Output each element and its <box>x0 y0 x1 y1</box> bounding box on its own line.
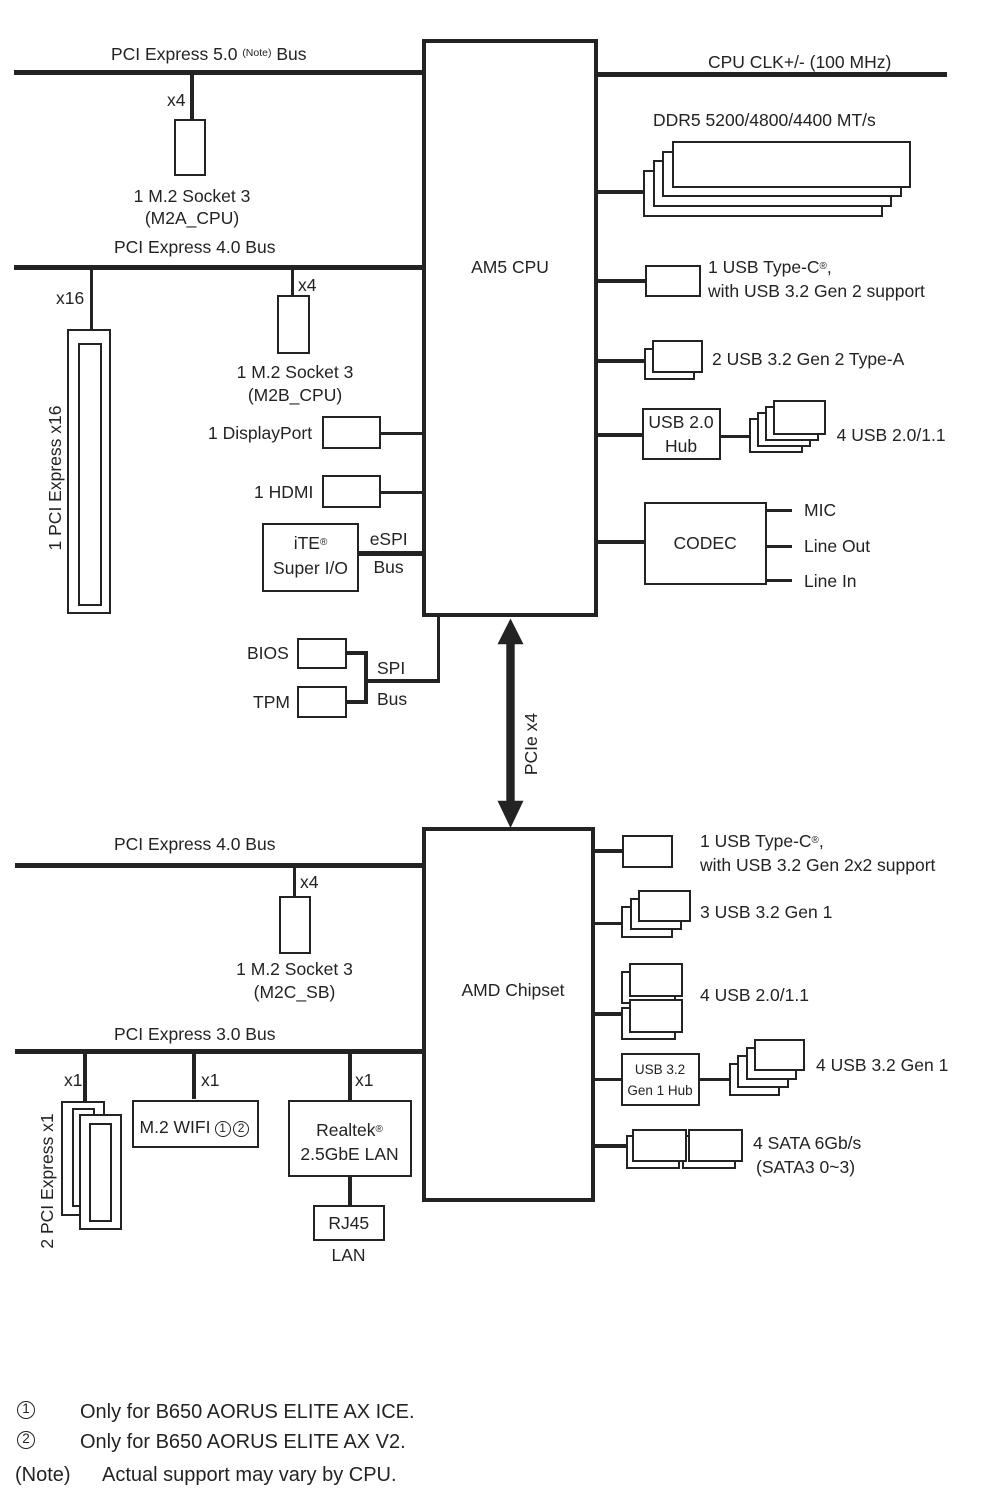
label AMD Chipset <box>513 980 616 1000</box>
label x1 <box>201 1070 219 1090</box>
note label (Note) <box>15 1464 71 1487</box>
hub USB 3.2 card 3 <box>737 1055 788 1087</box>
chipset USB 2.0 card 4 back <box>621 1007 676 1040</box>
label SPI <box>377 658 405 678</box>
wire chipset to USB Type-C 2x2 <box>595 849 622 853</box>
wire SPI bus to CPU <box>437 617 441 683</box>
bus PCI Express 5.0 <box>14 70 422 75</box>
note mark 1 <box>215 1121 231 1137</box>
TPM box <box>297 686 347 718</box>
label 1 M.2 Socket 3 <box>192 186 309 206</box>
PCIe x1 slot 2 inner <box>89 1123 112 1222</box>
chipset USB 2.0 card 1 front <box>629 963 684 996</box>
PCIe x1 slot 1 inner <box>72 1108 95 1207</box>
wire BIOS to SPI bracket <box>347 651 368 655</box>
SATA card right front <box>688 1129 743 1162</box>
wire TPM to SPI bracket <box>347 700 368 704</box>
label MIC <box>804 500 836 520</box>
wire x1 to PCIe x1 slots <box>83 1054 87 1101</box>
block USB 2.0 Hub <box>642 408 721 460</box>
wire SPI bracket vertical <box>364 651 368 703</box>
label (M2B_CPU) <box>295 385 389 405</box>
block AMD Chipset <box>422 827 595 1202</box>
wire Line In <box>767 579 792 583</box>
bus PCI Express 3.0 <box>15 1049 422 1054</box>
label (SATA3 0~3) <box>756 1157 855 1177</box>
wire x16 to PCIe slot <box>90 270 94 329</box>
block M.2 WIFI <box>132 1100 259 1148</box>
label BIOS <box>247 643 289 663</box>
USB Type-C 2x2 port box <box>622 835 673 868</box>
label with USB 3.2 Gen 2 support <box>708 281 925 301</box>
M.2 socket M2B_CPU <box>277 295 310 354</box>
wire x1 to M.2 WIFI <box>192 1054 196 1099</box>
label x4 <box>300 872 318 892</box>
label 4 SATA 6Gb/s <box>753 1133 861 1153</box>
wire CPU CLK <box>598 72 947 77</box>
wire x4 to M2B_CPU <box>291 270 295 295</box>
wire chipset to SATA <box>595 1144 626 1148</box>
SATA card left back <box>626 1135 681 1168</box>
USB Type-C port box <box>645 265 701 297</box>
wire x4 to M2C_SB <box>293 868 297 896</box>
note text 3 <box>102 1464 397 1487</box>
bus PCI Express 4.0 upper <box>14 265 422 270</box>
label PCI Express 5.0 (Note) Bus <box>111 43 307 64</box>
wire chipset to USB 2.0 ports <box>595 1012 621 1016</box>
label x1 <box>64 1070 82 1090</box>
label PCI Express 4.0 Bus <box>114 237 275 257</box>
label 1 DisplayPort <box>208 423 312 443</box>
label PCI Express 3.0 Bus <box>114 1024 275 1044</box>
label AM5 CPU <box>510 257 588 277</box>
label PCI Express 4.0 Bus <box>114 834 275 854</box>
note text 1 <box>80 1401 415 1424</box>
PCIe x1 slot 2 outer <box>79 1114 123 1230</box>
USB 2.0 card 4 <box>749 418 803 453</box>
DDR5 DIMM 4 <box>643 170 883 217</box>
BIOS box <box>297 638 347 669</box>
label Gen 1 Hub <box>660 1083 725 1098</box>
label 1 M.2 Socket 3 <box>295 959 412 979</box>
wire Hub to USB 2.0 ports <box>721 435 750 439</box>
wire HDMI to CPU <box>380 491 422 495</box>
label 4 USB 2.0/1.1 <box>700 985 809 1005</box>
DDR5 DIMM 1 <box>672 141 912 188</box>
note mark 1 <box>17 1401 35 1419</box>
label Line In <box>804 571 857 591</box>
PCIe x1 slot 1 outer <box>61 1101 105 1217</box>
label CPU CLK+/- (100 MHz) <box>708 52 891 72</box>
label TPM <box>253 692 290 712</box>
label (M2C_SB) <box>295 982 377 1002</box>
USB 2.0 card 1 <box>773 400 827 435</box>
wire CPU to USB 2.0 Hub <box>598 433 642 437</box>
label 1 PCI Express x16 <box>45 406 65 551</box>
wire MIC <box>767 509 792 513</box>
USB 3.2 Gen 1 card 3 <box>621 906 673 938</box>
label USB 3.2 <box>660 1062 710 1077</box>
wire CPU to USB Type-C <box>598 279 645 283</box>
wire chipset to USB 3.2 Gen 1 Hub <box>595 1078 621 1082</box>
label Bus <box>377 689 407 709</box>
RJ45 connector box <box>313 1205 386 1241</box>
label 3 USB 3.2 Gen 1 <box>700 902 832 922</box>
label x1 <box>355 1070 373 1090</box>
label iTE <box>311 533 345 553</box>
label PCIe x4 <box>521 713 541 775</box>
wire CPU to USB 3.2 Gen 2 Type-A <box>598 359 644 363</box>
wire Realtek to RJ45 <box>348 1175 352 1205</box>
M.2 socket M2C_SB <box>279 896 312 954</box>
hub USB 3.2 card 2 <box>746 1047 797 1079</box>
label x4 <box>298 275 316 295</box>
label x4 <box>167 90 185 110</box>
USB 3.2 Gen 1 card 2 <box>630 898 682 930</box>
wire Line Out <box>767 545 792 549</box>
wire x1 to Realtek LAN <box>348 1054 352 1100</box>
label with USB 3.2 Gen 2x2 support <box>700 855 935 875</box>
label LAN <box>349 1245 383 1265</box>
SATA card left front <box>632 1129 687 1162</box>
M.2 socket M2A_CPU <box>174 119 206 176</box>
label 1 USB Type-C <box>708 257 832 277</box>
wire chipset to USB 3.2 Gen 1 <box>595 922 621 926</box>
block USB 3.2 Gen 1 Hub <box>621 1053 700 1106</box>
label M.2 WIFI <box>140 1117 211 1137</box>
label eSPI <box>370 529 408 549</box>
label 1 USB Type-C <box>700 831 824 851</box>
chipset USB 2.0 card 2 back <box>621 971 676 1004</box>
block Realtek 2.5GbE LAN <box>288 1100 412 1177</box>
label USB 2.0 <box>681 412 746 432</box>
label 2 PCI Express x1 <box>37 1113 57 1248</box>
SATA card right back <box>682 1135 737 1168</box>
chipset USB 2.0 card 3 front <box>629 999 684 1032</box>
label Realtek <box>350 1120 417 1140</box>
bus eSPI <box>359 551 422 557</box>
block iTE Super I/O <box>262 523 359 592</box>
USB 3.2 Gen 2 Type-A card front <box>652 340 703 373</box>
label 4 USB 3.2 Gen 1 <box>816 1055 948 1075</box>
wire SPI bus horizontal <box>364 679 440 683</box>
DisplayPort port box <box>322 416 381 449</box>
wire CPU to CODEC <box>598 540 644 544</box>
label Super I/O <box>311 558 386 578</box>
hub USB 3.2 card 1 <box>754 1039 805 1071</box>
label DDR5 5200/4800/4400 MT/s <box>653 110 876 130</box>
wire x4 to M2A_CPU <box>190 75 194 119</box>
USB 2.0 card 3 <box>757 412 811 447</box>
label Line Out <box>804 536 870 556</box>
block CODEC <box>644 502 767 586</box>
block AM5 CPU <box>422 39 598 617</box>
note text 2 <box>80 1431 406 1454</box>
arrow PCIe x4 CPU-chipset <box>494 617 527 829</box>
USB 3.2 Gen 1 card 1 <box>638 890 690 922</box>
wire DisplayPort to CPU <box>380 432 422 436</box>
label 2.5GbE LAN <box>350 1144 448 1164</box>
USB 3.2 Gen 2 Type-A card back <box>644 348 695 381</box>
note mark 2 <box>233 1121 249 1137</box>
HDMI port box <box>322 475 381 508</box>
DDR5 DIMM 3 <box>653 160 893 207</box>
hub USB 3.2 card 4 <box>729 1063 780 1095</box>
label Bus <box>374 557 404 577</box>
label (M2A_CPU) <box>192 208 286 228</box>
label 1 M.2 Socket 3 <box>295 362 412 382</box>
PCIe x16 slot inner <box>78 343 102 606</box>
USB 2.0 card 2 <box>765 406 819 441</box>
note mark 2 <box>17 1431 35 1449</box>
wire CPU to DDR5 <box>598 190 643 194</box>
bus PCI Express 4.0 lower <box>15 863 422 868</box>
DDR5 DIMM 2 <box>662 151 902 198</box>
label x16 <box>56 288 84 308</box>
label Hub <box>681 436 713 456</box>
label 2 USB 3.2 Gen 2 Type-A <box>712 349 904 369</box>
PCIe x16 slot outer <box>67 329 111 614</box>
label 4 USB 2.0/1.1 <box>837 425 946 445</box>
wire Hub to USB 3.2 Gen 1 ports <box>700 1078 730 1082</box>
label 1 HDMI <box>254 482 313 502</box>
